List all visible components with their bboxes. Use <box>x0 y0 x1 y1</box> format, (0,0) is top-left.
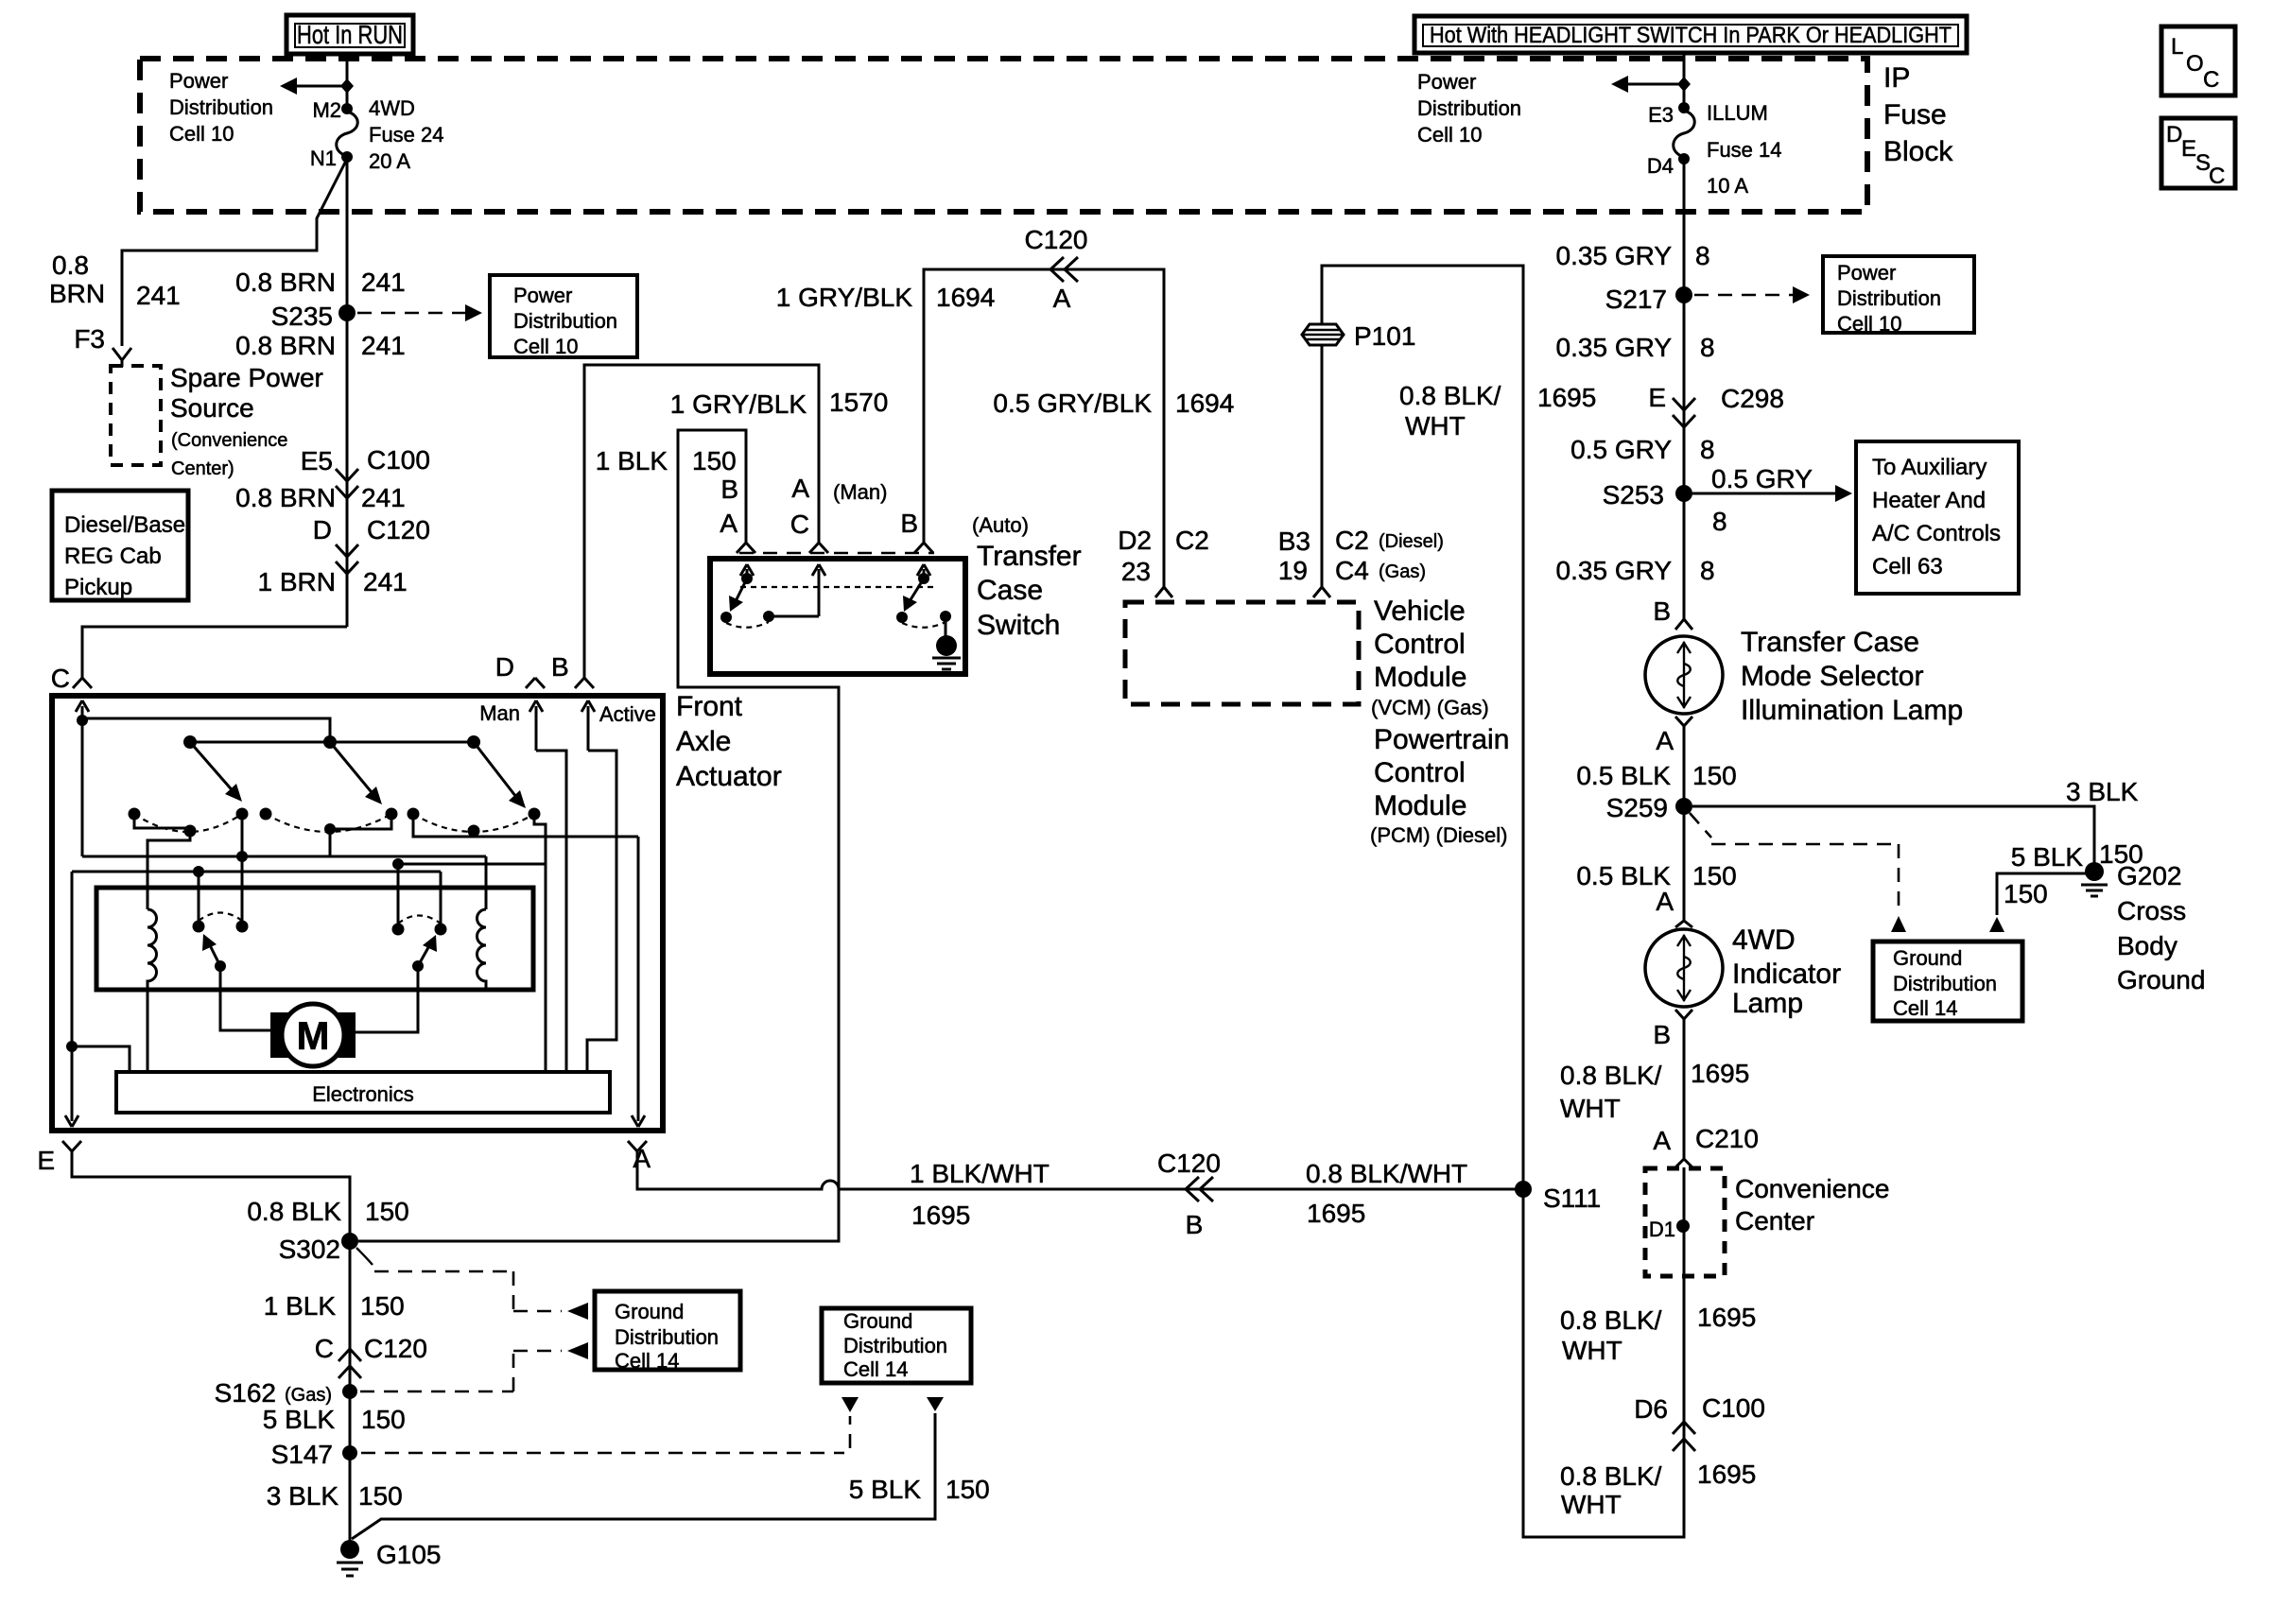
svg-text:A: A <box>1053 284 1071 313</box>
svg-text:1570: 1570 <box>829 388 888 417</box>
svg-text:1694: 1694 <box>936 283 995 312</box>
svg-text:Axle: Axle <box>676 726 731 757</box>
lamp: 4WD Indicator Lamp <box>1645 929 1723 1007</box>
svg-text:10 A: 10 A <box>1707 174 1748 198</box>
svg-text:Module: Module <box>1374 662 1466 693</box>
box: Convenience Center dashed <box>1645 1168 1725 1276</box>
svg-text:0.35 GRY: 0.35 GRY <box>1556 556 1673 585</box>
svg-text:Ground: Ground <box>1893 946 1962 970</box>
svg-text:Cell 14: Cell 14 <box>615 1349 679 1373</box>
wire: feed arrow to power distribution <box>288 85 344 88</box>
svg-text:C120: C120 <box>367 515 430 544</box>
terminal C fork <box>73 672 92 688</box>
terminal fork switch pin C <box>809 537 828 553</box>
wire: S253 branch to aux heater <box>1692 492 1840 495</box>
wire: branch from N1 to F3 spare power <box>122 161 346 346</box>
svg-text:1 BLK/WHT: 1 BLK/WHT <box>910 1159 1050 1188</box>
svg-text:(Auto): (Auto) <box>972 513 1029 537</box>
svg-text:8: 8 <box>1700 333 1715 362</box>
travel arc 2 <box>266 814 391 832</box>
svg-text:0.8 BLK: 0.8 BLK <box>247 1197 341 1226</box>
actuator pin C arrow <box>76 700 89 720</box>
box: Transfer Case Switch <box>710 559 965 674</box>
svg-text:0.8 BRN: 0.8 BRN <box>235 483 336 512</box>
svg-text:BRN: BRN <box>49 279 105 308</box>
box: Electronics <box>116 1072 610 1113</box>
svg-text:C100: C100 <box>1702 1393 1765 1423</box>
wire: bus H1 <box>82 855 486 858</box>
svg-text:Diesel/Base: Diesel/Base <box>64 512 185 538</box>
arrowhead left <box>280 78 297 95</box>
svg-text:241: 241 <box>361 331 406 360</box>
svg-text:A/C Controls: A/C Controls <box>1872 521 2001 546</box>
splice S162 <box>342 1384 357 1399</box>
svg-text:M2: M2 <box>312 98 341 122</box>
box: Power Distribution Cell 10 <box>490 275 637 358</box>
wire: N1 down to S235 <box>346 159 349 313</box>
box: LOC <box>2161 26 2235 95</box>
svg-text:B3: B3 <box>1278 527 1310 556</box>
travel arc 1 <box>134 814 242 832</box>
svg-text:G202: G202 <box>2117 861 2182 890</box>
splice S111 <box>1515 1181 1532 1198</box>
wire: feed arrow to power distribution right <box>1620 83 1681 86</box>
wire: contact stubs <box>134 814 190 828</box>
svg-text:E5: E5 <box>301 446 333 475</box>
svg-text:1695: 1695 <box>1697 1460 1756 1489</box>
svg-text:Power: Power <box>1837 261 1896 285</box>
svg-text:C: C <box>790 510 809 539</box>
svg-text:B: B <box>551 652 569 682</box>
svg-text:D6: D6 <box>1634 1394 1668 1424</box>
splice S235 <box>338 304 356 321</box>
svg-text:A: A <box>791 474 809 503</box>
ground G105 <box>340 1540 359 1559</box>
svg-text:Distribution: Distribution <box>513 309 617 333</box>
svg-text:5 BLK: 5 BLK <box>263 1405 336 1434</box>
svg-text:20 A: 20 A <box>369 149 410 173</box>
terminal A fork <box>628 1141 647 1151</box>
wire: S259 to G202 (3 BLK 150) <box>1692 806 2094 864</box>
svg-text:Illumination Lamp: Illumination Lamp <box>1741 695 1963 726</box>
svg-text:0.5 BLK: 0.5 BLK <box>1576 761 1671 790</box>
wire: 5 BLK 150 from G105 riser to ground distribution 2 <box>352 1413 935 1539</box>
wire: VCM pin D2 fork <box>1155 582 1172 597</box>
svg-text:(PCM) (Diesel): (PCM) (Diesel) <box>1370 823 1507 847</box>
svg-text:Hot With HEADLIGHT SWITCH In P: Hot With HEADLIGHT SWITCH In PARK Or HEA… <box>1430 23 1952 48</box>
svg-text:0.8 BLK/WHT: 0.8 BLK/WHT <box>1306 1159 1467 1188</box>
svg-text:1695: 1695 <box>1697 1303 1756 1332</box>
svg-text:Convenience: Convenience <box>1735 1174 1889 1203</box>
svg-text:1 GRY/BLK: 1 GRY/BLK <box>776 283 913 312</box>
svg-text:150: 150 <box>1692 761 1737 790</box>
coil right <box>485 856 488 909</box>
svg-text:Control: Control <box>1374 757 1466 788</box>
switch blade right <box>910 579 924 601</box>
splice S147 <box>342 1445 357 1460</box>
dashed arrow S235 to power distribution <box>357 312 470 315</box>
svg-text:0.8 BLK/: 0.8 BLK/ <box>1560 1305 1662 1335</box>
svg-text:1 GRY/BLK: 1 GRY/BLK <box>670 389 807 419</box>
svg-text:Block: Block <box>1883 136 1953 167</box>
node: Hot In RUN feed box <box>286 15 413 54</box>
svg-text:F3: F3 <box>74 324 105 354</box>
wire: left rail to E <box>71 872 74 1115</box>
splice S217 <box>1675 286 1692 303</box>
wire: bus H3 <box>72 871 441 873</box>
terminal F3 fork <box>113 348 131 360</box>
svg-text:D: D <box>2166 122 2182 147</box>
svg-text:(Gas): (Gas) <box>1379 561 1426 582</box>
svg-text:0.5 GRY: 0.5 GRY <box>1711 464 1813 493</box>
wire: trunk to C terminal of actuator <box>82 627 347 672</box>
svg-text:WHT: WHT <box>1560 1094 1621 1123</box>
svg-text:5 BLK: 5 BLK <box>849 1475 922 1504</box>
svg-text:Man: Man <box>479 701 520 725</box>
svg-text:(VCM) (Gas): (VCM) (Gas) <box>1371 696 1489 719</box>
svg-text:4WD: 4WD <box>369 96 415 120</box>
svg-text:Distribution: Distribution <box>615 1325 719 1349</box>
svg-text:C210: C210 <box>1695 1124 1759 1153</box>
svg-text:Distribution: Distribution <box>843 1334 947 1357</box>
svg-text:C4: C4 <box>1335 556 1369 585</box>
box: Front Axle Actuator <box>52 696 663 1131</box>
junction diamond <box>1677 77 1691 92</box>
svg-text:Case: Case <box>977 575 1043 606</box>
box: Diesel/Base REG Cab Pickup <box>52 491 188 600</box>
svg-text:0.35 GRY: 0.35 GRY <box>1556 241 1673 270</box>
svg-text:(Gas): (Gas) <box>285 1385 332 1406</box>
svg-text:Powertrain: Powertrain <box>1374 724 1509 755</box>
svg-text:3 BLK: 3 BLK <box>2066 777 2139 806</box>
svg-text:Transfer Case: Transfer Case <box>1741 627 1919 658</box>
svg-text:Distribution: Distribution <box>1893 972 1997 995</box>
box: Ground Distribution Cell 14 (right) <box>1873 942 2022 1021</box>
wire: VCM pin B3 fork <box>1313 582 1330 597</box>
svg-text:0.35 GRY: 0.35 GRY <box>1556 333 1673 362</box>
svg-text:Ground: Ground <box>843 1309 912 1333</box>
svg-text:Control: Control <box>1374 629 1466 660</box>
svg-text:1 BLK: 1 BLK <box>264 1291 337 1321</box>
svg-text:S253: S253 <box>1603 480 1664 510</box>
svg-text:Distribution: Distribution <box>169 95 273 119</box>
actuator pin Man arrow <box>529 700 543 751</box>
switch internal ground <box>945 616 947 636</box>
svg-text:A: A <box>720 509 737 538</box>
svg-text:23: 23 <box>1121 557 1151 586</box>
svg-text:Cross: Cross <box>2117 896 2186 925</box>
lamp terminal A fork <box>1675 717 1692 733</box>
svg-text:WHT: WHT <box>1561 1490 1622 1519</box>
svg-text:(Diesel): (Diesel) <box>1379 531 1444 552</box>
svg-text:L: L <box>2171 34 2183 60</box>
svg-text:S162: S162 <box>215 1378 276 1408</box>
svg-text:D2: D2 <box>1118 526 1152 555</box>
wire: Man jog down <box>536 751 566 1072</box>
svg-text:O: O <box>2186 51 2204 77</box>
svg-text:Cell 14: Cell 14 <box>843 1357 908 1381</box>
wire: 0.8 BLK/WHT P101 loop <box>1322 266 1684 1537</box>
svg-text:C2: C2 <box>1335 526 1369 555</box>
ground G202 <box>2085 862 2104 881</box>
svg-text:150: 150 <box>692 446 737 475</box>
svg-text:B: B <box>720 475 738 504</box>
label: Power Distribution Cell 10 (right) <box>1417 70 1521 147</box>
svg-text:5 BLK: 5 BLK <box>2011 842 2084 872</box>
svg-text:Active: Active <box>599 702 656 726</box>
box: actuator coil assembly <box>96 888 533 990</box>
wire: top contact row <box>190 741 474 744</box>
power distribution dashed cell box <box>140 59 1867 212</box>
switch blade 3 <box>474 742 519 801</box>
svg-text:WHT: WHT <box>1562 1336 1622 1365</box>
svg-text:ILLUM: ILLUM <box>1707 101 1768 125</box>
box: DESC <box>2161 118 2235 189</box>
node: Hot With HEADLIGHT SWITCH box <box>1414 16 1967 53</box>
svg-text:(Convenience: (Convenience <box>171 430 287 451</box>
svg-text:150: 150 <box>2004 879 2048 908</box>
junction diamond <box>340 78 354 94</box>
connector C100 pin E5 <box>336 469 358 481</box>
svg-text:4WD: 4WD <box>1732 924 1796 956</box>
switch arrow 2 common <box>812 564 825 616</box>
svg-text:Module: Module <box>1374 790 1466 821</box>
wire: switch common to A <box>413 814 638 837</box>
node D1 <box>1676 1219 1690 1233</box>
lower contacts <box>129 808 141 821</box>
travel arc 3 <box>413 814 534 832</box>
svg-text:1695: 1695 <box>911 1201 970 1230</box>
wire: coil left to electronics <box>147 990 149 1072</box>
connector C298 pin E <box>1673 398 1695 410</box>
svg-text:S217: S217 <box>1605 285 1667 314</box>
svg-text:1 BRN: 1 BRN <box>258 567 336 596</box>
connector C210 pin A fork <box>1675 1153 1692 1167</box>
svg-text:B: B <box>1653 1020 1671 1049</box>
wire: actuator A to S111 (1695) with hop <box>637 1151 1523 1189</box>
svg-text:1 BLK: 1 BLK <box>596 446 668 475</box>
svg-text:150: 150 <box>358 1481 403 1511</box>
wire: A rail <box>637 837 640 1115</box>
dashed arrow S217 to power distribution <box>1694 294 1797 297</box>
svg-text:IP: IP <box>1883 62 1910 94</box>
fuse F24 terminal M2 <box>341 103 353 114</box>
svg-text:Power: Power <box>169 69 228 93</box>
svg-text:241: 241 <box>361 268 406 297</box>
coil switch right contacts <box>392 924 405 936</box>
switch mech dashed link <box>740 586 934 588</box>
splice S259 <box>1675 798 1692 815</box>
svg-text:C120: C120 <box>364 1334 427 1363</box>
connector C120 pin C <box>338 1349 361 1361</box>
svg-text:0.5 GRY/BLK: 0.5 GRY/BLK <box>993 389 1152 418</box>
svg-text:8: 8 <box>1700 556 1715 585</box>
wire: C feed to contact row <box>82 718 330 742</box>
box: Power Distribution Cell 10 <box>1823 256 1974 336</box>
wire: 1 BLK 150 loop to S302 <box>358 430 839 1241</box>
box: Ground Distribution Cell 14 (left) <box>595 1291 740 1373</box>
svg-text:Fuse 24: Fuse 24 <box>369 123 444 147</box>
svg-text:0.8 BRN: 0.8 BRN <box>235 331 336 360</box>
svg-text:3 BLK: 3 BLK <box>267 1481 339 1511</box>
lamp: Transfer Case Mode Selector Illumination Lamp <box>1645 636 1723 714</box>
svg-text:Center: Center <box>1735 1206 1814 1235</box>
svg-text:1695: 1695 <box>1691 1059 1749 1088</box>
actuator pin A arrow <box>632 1115 645 1127</box>
arrowhead left <box>1611 76 1628 93</box>
lamp2 terminal A fork <box>1675 915 1692 927</box>
svg-text:1694: 1694 <box>1175 389 1234 418</box>
svg-text:Cell 63: Cell 63 <box>1872 554 1943 579</box>
dashed wire S147 to ground distribution 2 <box>361 1452 844 1455</box>
svg-text:A: A <box>1656 726 1674 755</box>
connector C120 pin B chevron <box>1186 1177 1213 1201</box>
wire: 5 BLK 150 to G202 <box>1997 873 2086 915</box>
svg-text:D: D <box>313 515 332 544</box>
splice S302 <box>341 1233 358 1250</box>
coil switch left blade <box>215 960 226 972</box>
switch blade 1 <box>190 742 235 794</box>
svg-text:Power: Power <box>1417 70 1476 94</box>
terminal fork switch pin B <box>914 537 933 553</box>
svg-text:N1: N1 <box>310 147 337 170</box>
terminal B fork <box>575 672 594 688</box>
svg-text:C2: C2 <box>1175 526 1209 555</box>
svg-text:150: 150 <box>365 1197 409 1226</box>
label: IP Fuse Block <box>1883 62 1953 167</box>
svg-text:1695: 1695 <box>1537 383 1596 412</box>
label: 0.8 BRN 241 (left branch) <box>49 251 181 310</box>
fuse F24 terminal N1 <box>341 151 353 163</box>
actuator pin E arrow <box>65 1115 78 1127</box>
svg-text:Distribution: Distribution <box>1837 286 1941 310</box>
svg-text:E: E <box>37 1146 55 1175</box>
box: To Auxiliary Heater And A/C Controls Cell 63 <box>1856 441 2019 594</box>
svg-text:Indicator: Indicator <box>1732 959 1841 990</box>
svg-text:Spare Power: Spare Power <box>170 363 323 392</box>
svg-text:Cell 14: Cell 14 <box>1893 996 1957 1020</box>
svg-text:Actuator: Actuator <box>676 761 782 792</box>
svg-text:Cell 10: Cell 10 <box>513 335 578 358</box>
svg-text:(Man): (Man) <box>833 480 887 504</box>
svg-text:E: E <box>1648 383 1666 412</box>
terminal fork switch pin A <box>737 537 755 553</box>
splice S253 <box>1675 485 1692 502</box>
coil switch left contacts <box>193 921 205 933</box>
svg-text:Lamp: Lamp <box>1732 988 1803 1019</box>
svg-text:241: 241 <box>136 281 181 310</box>
svg-text:A: A <box>633 1144 651 1173</box>
svg-text:0.5 GRY: 0.5 GRY <box>1570 435 1672 464</box>
wire: B actuator to switch C loop (1 GRY/BLK 1570) <box>584 365 819 675</box>
svg-text:Body: Body <box>2117 931 2178 960</box>
svg-text:G105: G105 <box>376 1540 442 1569</box>
svg-text:S235: S235 <box>271 302 333 331</box>
motor M <box>270 1012 292 1058</box>
svg-text:B: B <box>1186 1210 1204 1239</box>
box: Ground Distribution Cell 14 (center) <box>822 1308 971 1383</box>
fuse F14 terminal D4 <box>1678 153 1690 164</box>
svg-text:C: C <box>2203 67 2219 93</box>
svg-text:S111: S111 <box>1543 1183 1601 1213</box>
wire: S235 down through C100 C120 <box>346 313 349 627</box>
switch arrow 3 <box>917 564 930 579</box>
wire: lamp1 to lamp2 <box>1683 733 1686 915</box>
svg-text:D4: D4 <box>1647 154 1674 178</box>
svg-text:C: C <box>51 664 70 693</box>
label: Power Distribution Cell 10 (left) <box>169 69 273 146</box>
wire: Hot In RUN to fuse 24 <box>346 54 349 107</box>
svg-text:E3: E3 <box>1648 103 1674 127</box>
svg-text:Ground: Ground <box>2117 965 2205 994</box>
svg-text:WHT: WHT <box>1405 411 1466 441</box>
svg-text:C120: C120 <box>1025 225 1088 254</box>
svg-text:D: D <box>495 652 514 682</box>
connector C100 pin D6 <box>1673 1422 1695 1434</box>
wire: switch pin B auto to C120 to VCM <box>924 269 1164 585</box>
wire: right trunk D4 to C210 <box>1683 161 1686 613</box>
svg-text:S302: S302 <box>279 1235 340 1264</box>
svg-text:0.8 BRN: 0.8 BRN <box>235 268 336 297</box>
svg-text:M: M <box>297 1013 330 1058</box>
wire: Active jog down <box>587 751 616 1072</box>
svg-text:Switch: Switch <box>977 610 1060 641</box>
svg-text:150: 150 <box>361 1405 406 1434</box>
wire: actuator E to S302 <box>72 1151 350 1541</box>
svg-text:8: 8 <box>1695 241 1710 270</box>
wire: bus H2 <box>398 863 546 866</box>
arrow into ground distribution <box>1989 917 2004 932</box>
dashed wire S302 to ground distribution <box>356 1248 373 1265</box>
wire: lamp2 to C210 <box>1683 1027 1686 1153</box>
connector C120 pin D <box>336 544 358 557</box>
svg-text:Center): Center) <box>171 458 234 479</box>
dashed wire S259 to ground distribution <box>1690 813 1711 838</box>
actuator pin Active arrow <box>581 700 595 751</box>
connector dashed line at switch <box>739 552 934 555</box>
svg-text:D1: D1 <box>1649 1218 1675 1241</box>
svg-text:8: 8 <box>1700 435 1715 464</box>
svg-text:0.8 BLK/: 0.8 BLK/ <box>1399 381 1501 410</box>
svg-text:P101: P101 <box>1354 321 1415 351</box>
svg-text:C120: C120 <box>1157 1149 1221 1178</box>
svg-text:Distribution: Distribution <box>1417 96 1521 120</box>
svg-text:19: 19 <box>1278 556 1308 585</box>
svg-text:150: 150 <box>1692 861 1737 890</box>
svg-text:E: E <box>2181 136 2196 162</box>
svg-text:241: 241 <box>361 483 406 512</box>
svg-text:Ground: Ground <box>615 1300 684 1323</box>
svg-text:Fuse: Fuse <box>1883 99 1947 130</box>
svg-text:B: B <box>900 509 918 538</box>
splice P101 <box>1302 321 1415 351</box>
fuse 24 element <box>337 112 358 156</box>
svg-text:Electronics: Electronics <box>312 1082 414 1106</box>
svg-text:Transfer: Transfer <box>977 541 1082 572</box>
svg-text:241: 241 <box>363 567 408 596</box>
switch blade left <box>736 579 747 601</box>
svg-text:Cell 10: Cell 10 <box>169 122 234 146</box>
label: E3 D4 ILLUM Fuse 14 10A <box>1647 101 1782 198</box>
svg-text:S147: S147 <box>271 1440 333 1469</box>
coil left <box>147 909 157 990</box>
box: VCM dashed <box>1125 602 1359 704</box>
svg-text:Cell 10: Cell 10 <box>1417 123 1482 147</box>
svg-text:1695: 1695 <box>1307 1199 1365 1228</box>
label: M2 N1 4WD Fuse 24 20A <box>310 96 444 173</box>
svg-text:C: C <box>2209 164 2225 189</box>
terminal E fork <box>62 1141 81 1151</box>
